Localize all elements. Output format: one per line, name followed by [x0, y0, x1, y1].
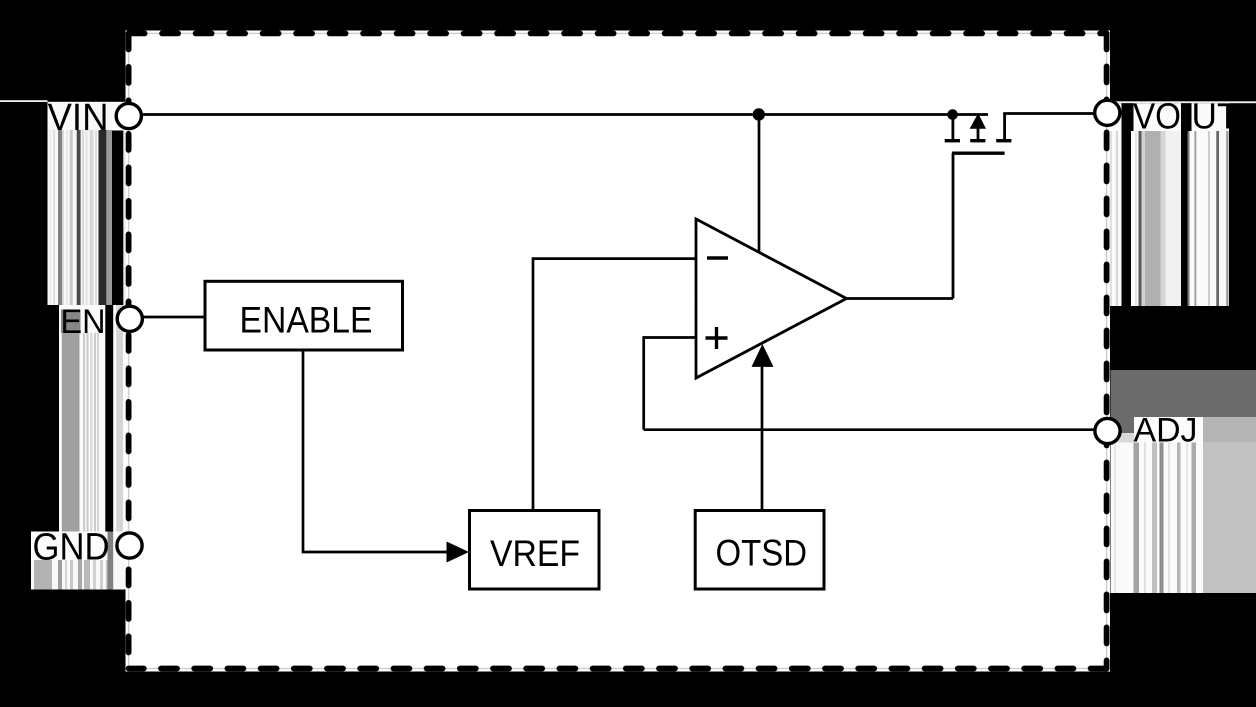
thin white line left of VIN — [0, 100, 48, 102]
IC boundary dashed border right — [1104, 33, 1110, 668]
svg-text:ADJ: ADJ — [1134, 412, 1198, 450]
arrowhead into op-amp — [752, 344, 774, 367]
body diode arrow — [970, 113, 986, 129]
wire drain to VOUT — [1003, 112, 1094, 115]
wire op-amp output to gate — [845, 297, 953, 300]
pin EN circle — [117, 306, 142, 331]
pin VOUT circle — [1095, 100, 1120, 125]
pin GND circle — [117, 533, 142, 558]
pin ADJ circle — [1095, 418, 1120, 443]
source contact bar — [945, 139, 960, 142]
block OTSD — [695, 511, 824, 590]
black pillar right of VIN — [112, 131, 123, 306]
IC boundary dashed border (gray underlay) — [129, 33, 1107, 668]
svg-text:GND: GND — [33, 527, 110, 569]
gate vertical wire — [952, 153, 955, 298]
black pillar between O and U — [1181, 103, 1192, 131]
wire minus input from VREF — [533, 259, 696, 510]
junction dot on VIN line at MOSFET source — [947, 109, 958, 120]
body contact bar — [970, 139, 985, 142]
transistor M1 PMOS pass FET — [945, 113, 1012, 298]
node EN label column (left smear) — [59, 305, 126, 532]
wire VIN horizontal — [129, 113, 988, 116]
svg-text:VREF: VREF — [490, 533, 580, 574]
channel line — [952, 151, 1005, 154]
IC interior white area — [126, 31, 1111, 672]
svg-text:UT: UT — [1192, 96, 1239, 137]
svg-text:EN: EN — [61, 303, 106, 341]
wire ENABLE to VREF with arrow — [303, 350, 447, 552]
wire OTSD to op-amp with arrow — [761, 365, 764, 511]
white label row right part — [112, 102, 126, 131]
node VIN label column (left smear) — [0, 100, 126, 305]
plus input symbol — [706, 336, 728, 339]
svg-text:VO: VO — [1133, 96, 1181, 137]
wire EN pin to ENABLE — [143, 316, 205, 319]
ADJ streak area — [1111, 443, 1204, 594]
block VREF — [470, 511, 600, 590]
IC boundary dashed border left — [126, 33, 132, 668]
node GND label column (left smear) — [31, 532, 126, 590]
svg-text:ENABLE: ENABLE — [240, 300, 373, 341]
svg-text:OTSD: OTSD — [716, 533, 808, 574]
wire VIN junction to op-amp top — [758, 115, 761, 253]
node VOUT label column (right smear) — [1105, 101, 1256, 306]
op-amp U1 error amplifier — [696, 219, 847, 378]
light strip to border — [123, 131, 126, 306]
wire ADJ horizontal — [644, 428, 1095, 431]
black pillar right of EN — [105, 305, 113, 532]
IC boundary dashed border top — [129, 31, 1107, 37]
junction dot on VIN line at op-amp tee — [753, 108, 765, 120]
wire plus input from ADJ — [644, 338, 696, 430]
IC boundary dashed border bottom — [129, 666, 1107, 672]
dark gray band above ADJ — [1111, 370, 1256, 417]
VIN white patch and streaks — [48, 102, 113, 305]
minus input symbol — [707, 256, 728, 259]
source stub — [952, 115, 955, 140]
drain vertical — [1003, 114, 1006, 140]
black pillar between circle and V — [1122, 103, 1134, 131]
pin VIN circle — [116, 103, 141, 128]
arrowhead into VREF — [447, 542, 470, 563]
drain contact bar — [996, 139, 1011, 142]
node ADJ label column (right smear) — [1111, 370, 1256, 593]
ADJ white patch — [1134, 417, 1203, 443]
thin white line across right of border — [1105, 101, 1256, 103]
svg-text:VIN: VIN — [48, 97, 109, 139]
gray right band — [1203, 417, 1256, 444]
block ENABLE — [205, 281, 403, 350]
